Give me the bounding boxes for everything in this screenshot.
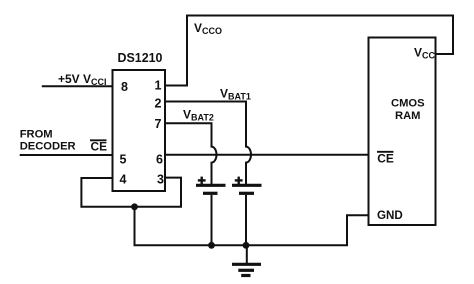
svg-text:CE: CE (377, 151, 394, 165)
wire pin 7 to battery B1 (net VBAT2) with hop over CE wire (165, 123, 217, 184)
wire pin 6 to CMOS RAM CE (165, 154, 369, 156)
wire loop junction down to ground rail and across to CMOS RAM GND (135, 207, 369, 246)
svg-text:DECODER: DECODER (20, 141, 76, 153)
svg-text:DS1210: DS1210 (118, 51, 163, 65)
junction dot on loop (131, 203, 138, 210)
IC U1 DS1210 body (113, 70, 166, 191)
IC U2 CMOS RAM body (369, 38, 436, 226)
junction dot battery B2 to ground rail (243, 242, 250, 249)
svg-text:CMOS: CMOS (391, 97, 425, 109)
wire +5V VCCI input to pin 8 (42, 85, 113, 87)
wire pin 2 to battery B2 (net VBAT1) with hop over CE wire (165, 102, 251, 185)
net VCCO: pin 1 stub up across top to CMOS RAM VCC (165, 16, 453, 86)
svg-text:4: 4 (120, 173, 127, 187)
junction dot battery B1 to ground rail (208, 242, 215, 249)
wire FROM DECODER to pin 5 (20, 154, 113, 156)
svg-text:7: 7 (155, 117, 162, 131)
svg-text:GND: GND (377, 209, 403, 222)
svg-text:CE: CE (91, 140, 108, 154)
svg-text:5: 5 (120, 153, 127, 167)
svg-text:2: 2 (155, 97, 162, 111)
svg-text:1: 1 (155, 79, 162, 93)
svg-text:FROM: FROM (20, 128, 53, 140)
ground symbol (232, 245, 261, 275)
svg-text:3: 3 (157, 173, 164, 187)
wire pin 4 to pin 3 loop below IC (81, 178, 181, 207)
svg-text:6: 6 (156, 153, 163, 167)
svg-text:8: 8 (121, 80, 128, 94)
battery B1 (VBAT2 backup cell) (196, 177, 226, 246)
battery B2 (VBAT1 backup cell) (232, 177, 262, 246)
svg-text:RAM: RAM (395, 110, 420, 122)
